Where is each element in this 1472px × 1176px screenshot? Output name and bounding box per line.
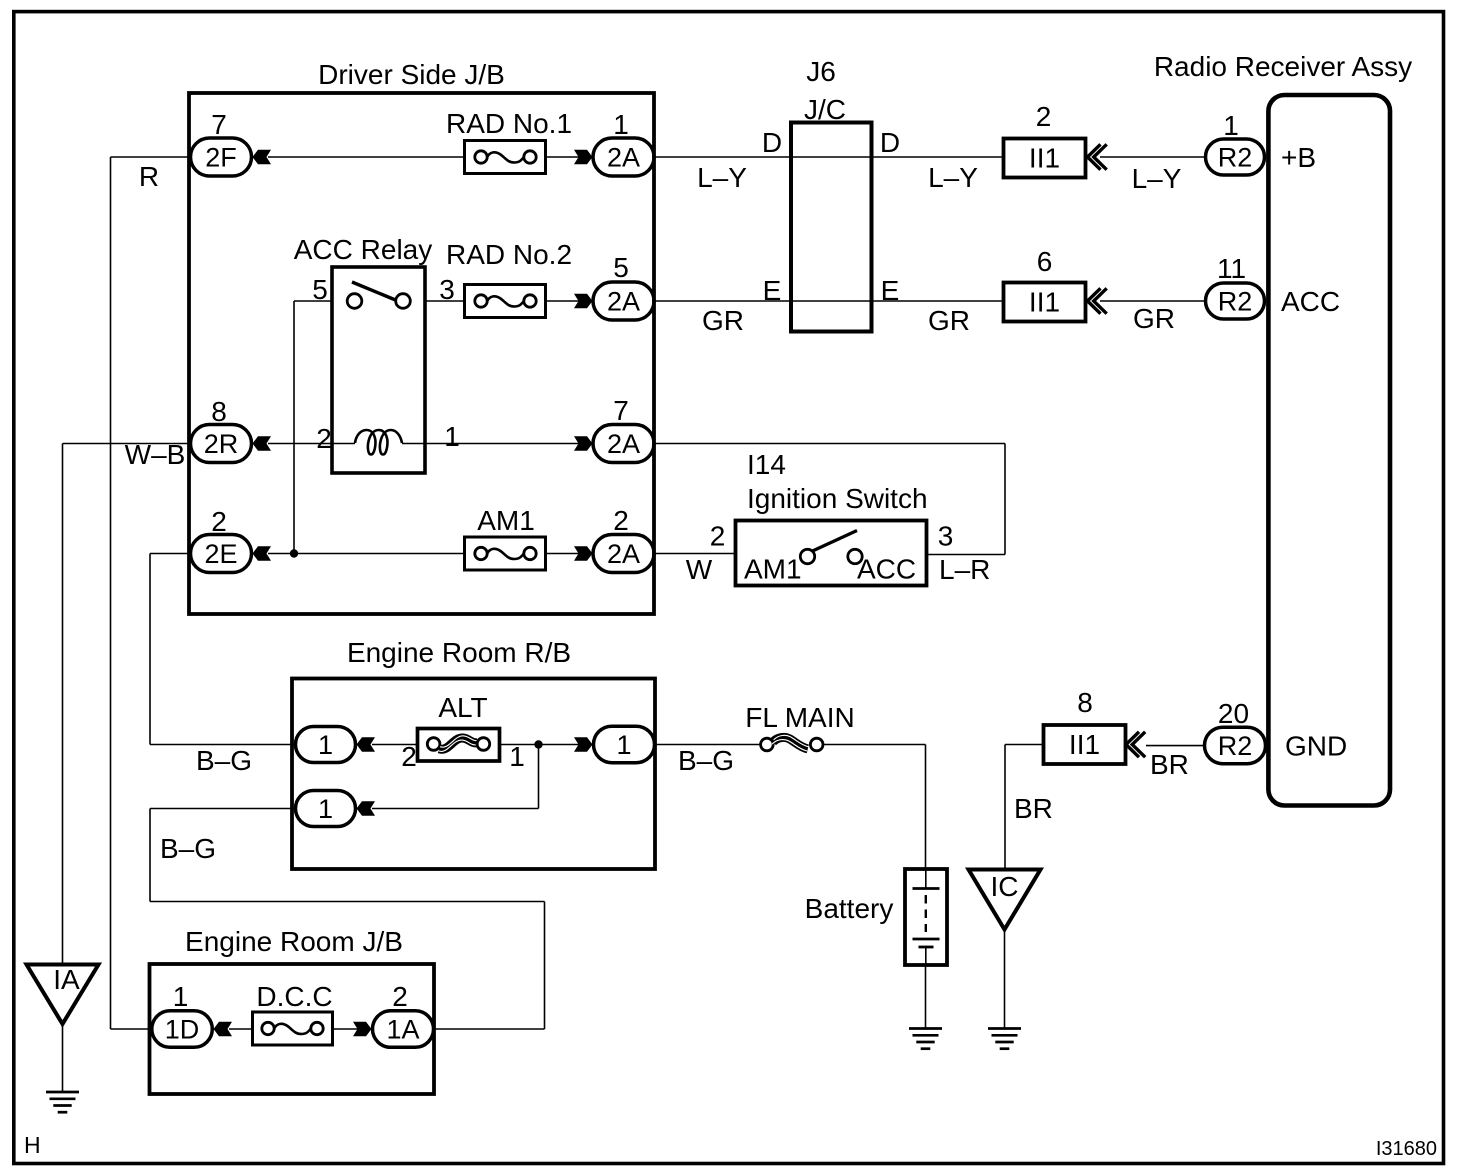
chevron arrows at II1 middle bbox=[1088, 288, 1107, 313]
svg-text:11: 11 bbox=[1217, 253, 1246, 284]
svg-text:ACC: ACC bbox=[1281, 286, 1340, 317]
label Engine Room J/B bbox=[185, 926, 403, 957]
battery internal wire top bbox=[925, 869, 927, 889]
pin 1 label above 1D bbox=[173, 981, 189, 1012]
wire GR II1 to R2 bbox=[1100, 300, 1205, 302]
arrow into 1A bbox=[353, 1022, 372, 1037]
wire BR II1 to R2 bbox=[1146, 745, 1205, 747]
svg-text:BR: BR bbox=[1014, 793, 1053, 824]
wire into connector 1A bbox=[434, 1028, 545, 1030]
wire ignition pin3 stub bbox=[927, 554, 1006, 556]
label D right bbox=[880, 127, 900, 158]
connector R2 pin11 bbox=[1206, 283, 1265, 319]
label Ignition Switch bbox=[747, 483, 928, 514]
svg-text:2: 2 bbox=[392, 981, 408, 1012]
svg-text:1: 1 bbox=[318, 730, 333, 760]
fuse ALT fusible link bbox=[418, 729, 500, 762]
ignition switch contacts bbox=[800, 549, 862, 563]
wire vertical rail R bbox=[110, 157, 112, 1029]
svg-text:GR: GR bbox=[1133, 303, 1175, 334]
label GR right bbox=[928, 305, 970, 336]
arrow into 2A pin5 bbox=[574, 294, 593, 309]
label L-Y left bbox=[697, 162, 747, 193]
svg-text:L–Y: L–Y bbox=[697, 162, 747, 193]
label H bbox=[24, 1132, 41, 1158]
svg-text:1: 1 bbox=[173, 981, 189, 1012]
connector R2 pin20 bbox=[1205, 727, 1266, 764]
label +B bbox=[1281, 142, 1316, 173]
connector 2A pin1 bbox=[593, 138, 654, 176]
wire relay pin5 stub bbox=[294, 300, 332, 302]
wire B-G connector 1 to FL MAIN bbox=[655, 744, 761, 746]
connector II1 middle bbox=[1004, 283, 1086, 322]
svg-text:GR: GR bbox=[928, 305, 970, 336]
svg-text:+B: +B bbox=[1281, 142, 1316, 173]
relay ACC Relay box bbox=[332, 267, 425, 473]
label RAD No.2 bbox=[446, 239, 572, 270]
label L-R bbox=[939, 554, 990, 585]
wire fuse AM1 to 2A bbox=[546, 553, 580, 555]
svg-text:2: 2 bbox=[1036, 101, 1052, 132]
wire fuse ALT to node bbox=[500, 744, 580, 746]
battery plate long bbox=[913, 938, 940, 941]
svg-text:2: 2 bbox=[211, 506, 227, 537]
svg-text:AM1: AM1 bbox=[744, 554, 802, 585]
svg-text:L–R: L–R bbox=[939, 554, 990, 585]
ignition pin 3 label bbox=[938, 521, 954, 552]
ground triangle IA bbox=[27, 964, 99, 1024]
pin 2 label bbox=[211, 506, 227, 537]
wire B-G into Engine Room R/B bbox=[150, 744, 296, 746]
connector 1 lower left bbox=[296, 791, 356, 827]
ground below IC bbox=[988, 1029, 1021, 1049]
label Driver Side J/B bbox=[318, 59, 505, 90]
svg-text:BR: BR bbox=[1150, 749, 1189, 780]
arrow into connector 1 upper bbox=[357, 737, 376, 752]
ground below battery bbox=[909, 1029, 942, 1049]
label B-G lower bbox=[160, 833, 216, 864]
label J/C bbox=[804, 94, 846, 125]
svg-text:Radio Receiver Assy: Radio Receiver Assy bbox=[1154, 51, 1412, 82]
svg-text:2: 2 bbox=[710, 521, 726, 552]
pin 7 label bbox=[211, 109, 227, 140]
svg-text:2A: 2A bbox=[607, 539, 640, 569]
svg-text:2A: 2A bbox=[607, 143, 640, 173]
svg-text:2: 2 bbox=[613, 505, 629, 536]
wire B-G from connector 2E to left bbox=[150, 553, 190, 555]
label W bbox=[686, 554, 713, 585]
svg-text:ACC Relay: ACC Relay bbox=[294, 234, 432, 265]
connector 2A pin7 bbox=[593, 425, 654, 463]
wire L-Y 2A to junction connector J6 bbox=[654, 156, 791, 158]
svg-text:D: D bbox=[880, 127, 900, 158]
wire IC to ground bbox=[1004, 930, 1006, 1029]
label Engine Room R/B bbox=[347, 637, 571, 668]
svg-text:FL MAIN: FL MAIN bbox=[745, 702, 854, 733]
svg-text:I14: I14 bbox=[747, 449, 786, 480]
svg-text:II1: II1 bbox=[1069, 729, 1100, 760]
pin 2 label above II1 bbox=[1036, 101, 1052, 132]
ALT pin 1 label bbox=[509, 741, 525, 772]
pin 1 label bbox=[613, 109, 629, 140]
wire lower branch to connector 1 lower bbox=[372, 808, 539, 810]
svg-text:1: 1 bbox=[444, 421, 460, 452]
chevron arrows at II1 bottom bbox=[1126, 732, 1145, 757]
pin 6 label above II1 bbox=[1037, 246, 1053, 277]
svg-text:20: 20 bbox=[1218, 698, 1249, 729]
label I31680 bbox=[1376, 1138, 1437, 1160]
svg-text:1: 1 bbox=[1223, 110, 1239, 141]
wire L-Y II1 to R2 bbox=[1100, 156, 1205, 158]
connector 2A pin2 bbox=[593, 535, 654, 573]
svg-text:1: 1 bbox=[509, 741, 525, 772]
relay switch blade bbox=[352, 282, 396, 300]
arrow into 2E bbox=[253, 546, 272, 561]
label GR left bbox=[702, 305, 744, 336]
relay block Engine Room R/B box bbox=[292, 679, 655, 870]
svg-text:GND: GND bbox=[1285, 731, 1347, 762]
svg-text:2R: 2R bbox=[204, 429, 239, 459]
wire ignition pin3 vertical bbox=[1004, 444, 1006, 555]
label L-Y far right bbox=[1132, 163, 1182, 194]
component Radio Receiver Assy box bbox=[1268, 95, 1390, 806]
svg-text:R2: R2 bbox=[1218, 143, 1253, 173]
pin 1 label above R2 bbox=[1223, 110, 1239, 141]
label I14 bbox=[747, 449, 786, 480]
label ACC contact bbox=[857, 554, 916, 585]
label D left bbox=[762, 127, 782, 158]
svg-text:1: 1 bbox=[616, 730, 631, 760]
svg-text:2E: 2E bbox=[204, 539, 237, 569]
svg-text:5: 5 bbox=[613, 252, 629, 283]
label AM1 contact bbox=[744, 554, 802, 585]
node junction on 2E wire bbox=[290, 549, 298, 557]
wire vertical rail W-B bbox=[62, 444, 64, 965]
connector 2F bbox=[191, 138, 252, 176]
svg-text:L–Y: L–Y bbox=[928, 162, 978, 193]
pin 8 label bbox=[211, 396, 227, 427]
svg-text:D: D bbox=[762, 127, 782, 158]
label BR right bbox=[1150, 749, 1189, 780]
pin 2 label right bbox=[613, 505, 629, 536]
label GND pin bbox=[1285, 731, 1347, 762]
connector 1 right bbox=[594, 726, 655, 763]
wire fuse RAD No.1 to 2A bbox=[546, 156, 580, 158]
arrow into connector 1 lower bbox=[357, 801, 376, 816]
wire vertical 2E down bbox=[149, 554, 151, 745]
junction block Driver Side J/B box bbox=[189, 93, 654, 614]
arrow into 2A pin7 bbox=[574, 436, 593, 451]
wire battery vertical bbox=[925, 745, 927, 870]
label D.C.C bbox=[256, 981, 332, 1012]
svg-text:8: 8 bbox=[211, 396, 227, 427]
connector II1 top bbox=[1004, 139, 1086, 178]
pin 11 label above R2 bbox=[1217, 253, 1246, 284]
ground below IA bbox=[46, 1092, 79, 1112]
battery plate top bbox=[913, 887, 940, 890]
wire 2A pin7 to ignition switch pin3 horizontal bbox=[654, 443, 1005, 445]
svg-text:II1: II1 bbox=[1029, 287, 1060, 318]
wire relay pin3 to fuse RAD No.2 bbox=[425, 300, 465, 302]
wire W-B from connector 2R to left rail bbox=[63, 443, 191, 445]
label ACC pin bbox=[1281, 286, 1340, 317]
arrow into 1D bbox=[214, 1022, 233, 1037]
connector 1 upper left bbox=[296, 727, 356, 763]
battery box bbox=[905, 869, 947, 965]
wire rail R into connector 1D bbox=[111, 1028, 152, 1030]
wire 1D to fuse DCC bbox=[229, 1028, 253, 1030]
junction block Engine Room J/B box bbox=[150, 964, 435, 1094]
wire fuse RAD No.2 to 2A bbox=[546, 300, 580, 302]
connector R2 pin1 bbox=[1206, 139, 1265, 175]
svg-text:R2: R2 bbox=[1218, 731, 1253, 761]
arrow into connector 1 right bbox=[574, 737, 593, 752]
label RAD No.1 bbox=[446, 108, 572, 139]
svg-text:2A: 2A bbox=[607, 429, 640, 459]
svg-text:J/C: J/C bbox=[804, 94, 846, 125]
svg-text:B–G: B–G bbox=[196, 745, 252, 776]
fuse FL MAIN fusible link bbox=[761, 735, 823, 751]
fuse AM1 bbox=[465, 537, 546, 570]
relay pin 3 label bbox=[439, 274, 455, 305]
label L-Y right bbox=[928, 162, 978, 193]
fuse RAD No.1 bbox=[465, 141, 546, 174]
svg-text:RAD No.1: RAD No.1 bbox=[446, 108, 572, 139]
wire GR 2A to junction connector J6 bbox=[654, 300, 791, 302]
battery plate short bbox=[919, 946, 934, 949]
battery dashed cells bbox=[925, 895, 927, 932]
ALT pin 2 label bbox=[401, 741, 417, 772]
svg-text:IC: IC bbox=[991, 871, 1019, 902]
svg-text:Engine Room R/B: Engine Room R/B bbox=[347, 637, 571, 668]
wire vertical B-G lower bbox=[149, 809, 151, 902]
wire 2E to fuse AM1 bbox=[268, 553, 465, 555]
wire II1 to IC corner bbox=[1005, 744, 1044, 746]
svg-text:H: H bbox=[24, 1132, 41, 1158]
wire relay coil pin1 to 2A bbox=[402, 443, 579, 445]
svg-text:RAD No.2: RAD No.2 bbox=[446, 239, 572, 270]
wire fuse DCC to 1A bbox=[333, 1028, 359, 1030]
arrow into 2F bbox=[253, 150, 272, 165]
connector 2E bbox=[191, 535, 252, 573]
wire battery to ground bbox=[925, 965, 927, 1029]
label E right bbox=[881, 275, 900, 306]
pin 7 label bbox=[613, 395, 629, 426]
switch I14 Ignition Switch box bbox=[736, 521, 927, 586]
svg-text:Battery: Battery bbox=[805, 893, 894, 924]
wire B-G out of connector 1 lower bbox=[150, 808, 296, 810]
svg-text:Engine Room J/B: Engine Room J/B bbox=[185, 926, 403, 957]
relay pin 1 label bbox=[444, 421, 460, 452]
svg-text:B–G: B–G bbox=[678, 745, 734, 776]
label B-G right bbox=[678, 745, 734, 776]
label E left bbox=[763, 275, 782, 306]
wire GR through J/C bbox=[791, 300, 872, 302]
label AM1 fuse bbox=[477, 505, 535, 536]
wire 2A pin2 to ignition switch pin2 bbox=[654, 553, 736, 555]
svg-text:AM1: AM1 bbox=[477, 505, 535, 536]
svg-text:2F: 2F bbox=[205, 143, 237, 173]
wire GR J/C to connector II1 bbox=[872, 300, 1004, 302]
wire FL MAIN to battery corner bbox=[824, 744, 926, 746]
svg-text:II1: II1 bbox=[1029, 143, 1060, 174]
connector 2A pin5 bbox=[593, 282, 654, 320]
label FL MAIN bbox=[745, 702, 854, 733]
svg-text:2A: 2A bbox=[607, 287, 640, 317]
wire relay pin5 down to node bbox=[293, 301, 295, 554]
label Radio Receiver Assy bbox=[1154, 51, 1412, 82]
pin 8 label above II1 bbox=[1077, 687, 1093, 718]
wire IC vertical bbox=[1004, 745, 1006, 870]
relay coil bbox=[355, 430, 402, 455]
wire L-Y through J/C bbox=[791, 156, 872, 158]
svg-text:W: W bbox=[686, 554, 713, 585]
label W-B bbox=[125, 439, 186, 470]
relay switch contacts bbox=[347, 294, 410, 309]
wire connector 1 to fuse ALT bbox=[372, 744, 418, 746]
svg-text:7: 7 bbox=[613, 395, 629, 426]
svg-text:1: 1 bbox=[318, 794, 333, 824]
ground triangle IC bbox=[969, 870, 1041, 930]
wire 2F to fuse RAD No.1 bbox=[268, 156, 465, 158]
connector 1D bbox=[152, 1011, 213, 1048]
node junction after ALT bbox=[534, 740, 542, 748]
svg-text:ACC: ACC bbox=[857, 554, 916, 585]
label ALT bbox=[438, 692, 487, 723]
label BR middle bbox=[1014, 793, 1053, 824]
svg-text:1A: 1A bbox=[386, 1015, 419, 1045]
svg-text:8: 8 bbox=[1077, 687, 1093, 718]
svg-text:1D: 1D bbox=[165, 1015, 200, 1045]
svg-text:L–Y: L–Y bbox=[1132, 163, 1182, 194]
svg-text:6: 6 bbox=[1037, 246, 1053, 277]
connector II1 bottom bbox=[1044, 725, 1126, 764]
connector 1A bbox=[373, 1011, 434, 1048]
svg-text:D.C.C: D.C.C bbox=[256, 981, 332, 1012]
arrow into 2R bbox=[253, 436, 272, 451]
label GR far right bbox=[1133, 303, 1175, 334]
svg-text:GR: GR bbox=[702, 305, 744, 336]
svg-text:W–B: W–B bbox=[125, 439, 186, 470]
label B-G upper bbox=[196, 745, 252, 776]
svg-text:Driver Side J/B: Driver Side J/B bbox=[318, 59, 505, 90]
pin 2 label above 1A bbox=[392, 981, 408, 1012]
fuse RAD No.2 bbox=[465, 285, 546, 318]
wire B-G lower horizontal bbox=[150, 901, 545, 903]
arrow into 2A pin1 bbox=[574, 150, 593, 165]
svg-text:Ignition Switch: Ignition Switch bbox=[747, 483, 928, 514]
pin 5 label bbox=[613, 252, 629, 283]
pin 20 label above R2 bbox=[1218, 698, 1249, 729]
ignition switch blade bbox=[813, 531, 858, 552]
junction connector J6 J/C box bbox=[791, 123, 872, 332]
svg-text:B–G: B–G bbox=[160, 833, 216, 864]
wire R from connector 2F to left rail bbox=[111, 156, 191, 158]
chevron arrows at II1 top bbox=[1088, 144, 1107, 169]
svg-text:2: 2 bbox=[401, 741, 417, 772]
battery internal wire bottom bbox=[925, 947, 927, 965]
svg-text:2: 2 bbox=[316, 423, 332, 454]
relay pin 5 label bbox=[312, 274, 328, 305]
svg-text:J6: J6 bbox=[806, 56, 836, 87]
fuse D.C.C bbox=[253, 1012, 333, 1045]
wire node down to lower branch bbox=[538, 745, 540, 809]
svg-text:7: 7 bbox=[211, 109, 227, 140]
svg-text:IA: IA bbox=[53, 964, 80, 995]
label J6 bbox=[806, 56, 836, 87]
svg-text:ALT: ALT bbox=[438, 692, 487, 723]
label ACC Relay bbox=[294, 234, 432, 265]
relay pin 2 label bbox=[316, 423, 332, 454]
svg-text:3: 3 bbox=[938, 521, 954, 552]
wire L-Y J/C to connector II1 bbox=[872, 156, 1004, 158]
svg-text:1: 1 bbox=[613, 109, 629, 140]
wire B-G lower vertical to 1A bbox=[544, 902, 546, 1030]
svg-text:R: R bbox=[139, 161, 159, 192]
svg-text:R2: R2 bbox=[1218, 287, 1253, 317]
connector 2R bbox=[191, 425, 252, 463]
label Battery bbox=[805, 893, 894, 924]
svg-text:I31680: I31680 bbox=[1376, 1138, 1437, 1160]
wire 2R to relay coil pin2 bbox=[268, 443, 355, 445]
label R bbox=[139, 161, 159, 192]
arrow into 2A pin2 bbox=[574, 546, 593, 561]
wire IA to ground bbox=[62, 1024, 64, 1092]
ignition pin 2 label bbox=[710, 521, 726, 552]
